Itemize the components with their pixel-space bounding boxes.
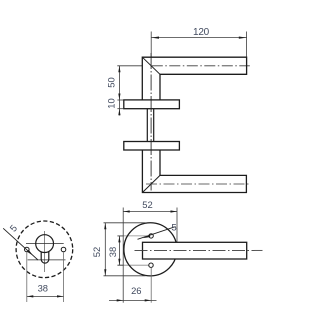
dimension 52 left: extension line bottom [104, 275, 146, 277]
dim 50 arrow down [118, 94, 120, 101]
dim 38 rose arrow bottom [118, 259, 120, 266]
leader line for hole dia 5 [3, 228, 38, 260]
dimension 38 (rose) line [118, 236, 120, 265]
spindle right line [153, 109, 155, 142]
keyhole horizontal centerline lower [28, 259, 66, 261]
svg-text:26: 26 [131, 285, 141, 296]
dimension 120 extension line right [246, 32, 248, 57]
svg-text:5: 5 [8, 223, 20, 234]
dimension 120 arrow right [239, 37, 247, 39]
escutcheon dashed circle [16, 221, 73, 278]
escutcheon screw hole right [61, 247, 66, 252]
dimension 50/10 line [118, 66, 120, 116]
extension line from right hole down [63, 252, 65, 302]
upper arm miter line [142, 57, 160, 74]
dimension 120 arrow left [151, 37, 159, 39]
lower arm miter line [142, 175, 160, 192]
euro profile cylinder circle [36, 235, 54, 253]
top screw hole [149, 234, 153, 238]
dimension 120 line [151, 37, 246, 39]
svg-text:52: 52 [91, 247, 102, 257]
dim 26 arrow at left ext (outside pointing right) [117, 299, 124, 301]
keyhole horizontal centerline upper [26, 243, 64, 245]
dim 38 arrow left [27, 295, 34, 297]
leader arrow [27, 250, 33, 256]
dimension 52 left line [104, 223, 106, 276]
upper lever arm centerline [152, 65, 250, 67]
dimension 52 top line [123, 211, 177, 213]
dim 52 left arrow top [104, 223, 106, 230]
dimension 120 extension line left [150, 32, 152, 57]
bottom screw hole [149, 263, 153, 267]
lever bar centerline [135, 249, 263, 251]
dimension 38 line (escutcheon) [27, 295, 64, 297]
dimension 52 left: extension line top [104, 222, 146, 224]
upper lever arm outline (side view) [142, 57, 246, 100]
extension line from bottom hole down (dim 26) [150, 268, 152, 303]
svg-text:10: 10 [106, 98, 117, 108]
svg-text:38: 38 [38, 282, 48, 293]
leader arrow (rose) [143, 235, 150, 238]
extension line from upper arm centerline (for dim 50) [117, 65, 142, 67]
dim 10 arrow up (below plate) [118, 109, 120, 116]
handle pivot axis centerline (side view) [150, 53, 152, 191]
leader line for hole dia 5 (rose) [138, 227, 176, 240]
dim 38 arrow right [57, 295, 64, 297]
dim 38 rose arrow top [118, 236, 120, 243]
lower lever arm centerline [146, 183, 250, 185]
extension stub at plate1 top [117, 99, 123, 101]
dimension 26 line [109, 299, 157, 301]
extension line from left hole down [26, 252, 28, 302]
extension stub at plate1 bottom [117, 108, 123, 110]
escutcheon screw hole left [25, 247, 30, 252]
euro profile slot [41, 251, 49, 263]
spindle left line [146, 109, 148, 142]
keyhole vertical centerline [44, 231, 46, 272]
svg-text:5: 5 [171, 222, 176, 233]
extension stub at top hole level [117, 235, 123, 237]
dim 50 arrow up [118, 66, 120, 73]
dimension 52 top: extension line left [122, 208, 124, 303]
dim 52 top arrow left [123, 210, 130, 212]
dim 26 arrow at right ext (inside pointing right) [145, 299, 152, 301]
lower lever arm outline (side view) [142, 150, 246, 193]
dim 52 top arrow right [171, 210, 178, 212]
dimension 52 top: extension line right [176, 208, 178, 242]
rose plate 2 (side view) [124, 142, 180, 151]
dim 52 left arrow bottom [104, 269, 106, 276]
svg-text:52: 52 [142, 199, 152, 210]
lever bar (front view) [143, 242, 247, 259]
svg-text:50: 50 [106, 77, 117, 87]
svg-text:120: 120 [193, 27, 210, 38]
rose circle [124, 223, 177, 276]
extension line from bottom screw hole to dim 38 [118, 264, 149, 266]
extension line from top screw hole to dim 38 [118, 235, 149, 237]
extension stub at bottom hole level [117, 264, 123, 266]
svg-text:38: 38 [107, 247, 118, 257]
rose plate 1 (side view) [124, 100, 180, 109]
